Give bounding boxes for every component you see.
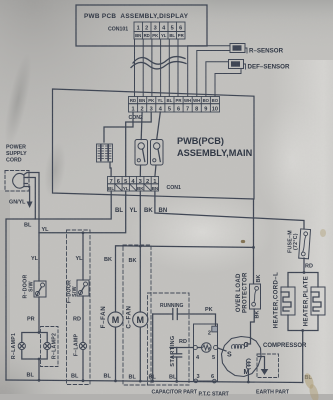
wire BL bus: [6, 191, 123, 380]
cable squiggle: [131, 57, 186, 69]
wire BK bus: [116, 191, 255, 312]
wire BN bus to fuse: [155, 191, 304, 229]
connector CON1: [108, 177, 182, 192]
compressor COMP1: [222, 337, 308, 377]
heater HEATER,PLATE: [304, 276, 326, 327]
connector CON101: [108, 22, 185, 39]
capacitor STARTING: [169, 335, 193, 382]
connector CON2: [129, 97, 220, 122]
wire plug live to door circuit: [28, 173, 40, 282]
wire relay RY2: [157, 112, 161, 140]
R-SENSOR connector: [230, 44, 284, 55]
power supply cord: [5, 145, 29, 192]
capacitor part dashed enclosure: [148, 293, 190, 385]
DEF-SENSOR connector: [229, 60, 290, 71]
F-DOOR dashed enclosure: [67, 230, 91, 385]
transformer T1: [97, 144, 113, 162]
heater top rail: [288, 271, 318, 287]
R-DOOR switch S1: [23, 256, 47, 299]
wires DEF-SENSOR: [206, 62, 241, 97]
F-DOOR switch S2: [67, 231, 90, 303]
thermal fuse FUSE-M: [288, 229, 313, 270]
motor C-FAN: [126, 258, 148, 383]
wire fuse to heater rail: [303, 258, 305, 273]
lamp R-LAMP1: [11, 333, 39, 360]
photo stains: [303, 372, 316, 390]
bottom neutral bus: [6, 380, 303, 383]
wire OLP to compressor: [251, 309, 255, 338]
motor F-FAN: [100, 257, 123, 382]
wire PTC pin5 to compressor S: [218, 348, 226, 351]
PTC element: [197, 343, 211, 353]
wire CON2 pin3 to CON1 pin5: [126, 112, 152, 177]
wire CON2 pin1 to transformer: [104, 112, 133, 142]
heater bottom rail: [288, 315, 318, 383]
wire lamps to bus: [27, 359, 41, 382]
wire plug neutral: [28, 178, 36, 220]
heater HEATER,CORD-L: [274, 272, 296, 328]
display PCB box U101: [76, 5, 207, 46]
wire harness display to main: [135, 40, 179, 97]
wire YL bus: [39, 191, 138, 233]
C-FAN dashed enclosure: [123, 245, 151, 385]
section labels: [152, 390, 290, 398]
relay RY1: [135, 140, 148, 166]
lamp R-LAMP2: [38, 327, 58, 367]
earth wire GN/YL with arrow: [9, 187, 33, 209]
main PCB box U1: [53, 89, 255, 199]
relay RY2: [151, 140, 164, 166]
lamp F-LAMP: [71, 296, 87, 382]
earth part: [257, 354, 279, 378]
wire R-DOOR to lamps PR: [27, 297, 39, 333]
wires R-SENSOR: [188, 46, 230, 97]
wire main box to OLP: [253, 199, 255, 247]
wire compressor M to bus: [247, 369, 250, 383]
wire capacitor neutral: [149, 314, 157, 383]
wire relay RY1: [140, 112, 143, 140]
PTC starter box: [193, 324, 218, 383]
wire transformer to CON1 pin7: [110, 162, 111, 177]
capacitor RUNNING: [153, 303, 216, 327]
over load protector OLP: [236, 272, 262, 318]
